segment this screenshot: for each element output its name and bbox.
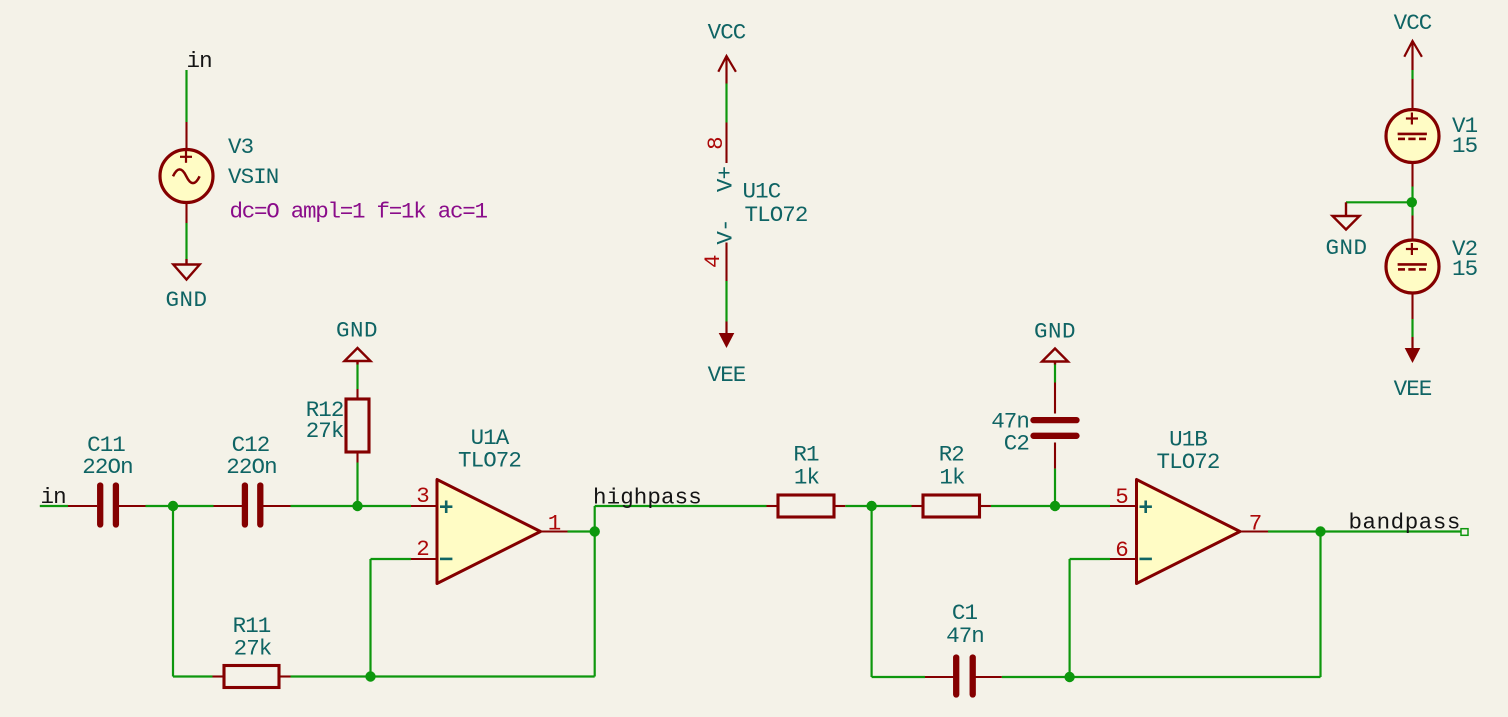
pin right of C1: [976, 676, 1002, 678]
wire in label to V3: [185, 70, 187, 122]
svg-text:bandpass: bandpass: [1349, 510, 1461, 536]
svg-text:VCC: VCC: [1394, 10, 1432, 36]
pin right of R1: [834, 505, 845, 507]
wire up to bandpass node F: [1319, 532, 1321, 678]
wire GND to C2 top: [1054, 365, 1056, 383]
power symbol VEE right: [1405, 337, 1421, 363]
wire U1C pin 4 to VEE: [725, 281, 727, 322]
svg-text:C2: C2: [1004, 431, 1029, 457]
pin 6 of U1B: [1110, 558, 1137, 560]
junction node H: [365, 671, 375, 681]
svg-text:V+: V+: [713, 167, 739, 193]
pin 5 of U1B: [1110, 505, 1137, 507]
svg-text:22On: 22On: [82, 454, 132, 480]
pin left of R2: [912, 505, 924, 507]
pin 1 of U1A: [541, 530, 568, 532]
capacitor C2: [1034, 420, 1077, 436]
svg-text:8: 8: [703, 137, 729, 150]
wire V1 to V2 through node J: [1411, 187, 1413, 216]
voltage source V1: [1386, 110, 1439, 163]
svg-text:TLO72: TLO72: [458, 448, 521, 474]
wire VCC to U1C pin 8: [725, 84, 727, 123]
svg-text:1k: 1k: [794, 465, 820, 491]
svg-text:VEE: VEE: [708, 362, 746, 388]
svg-text:3: 3: [416, 483, 429, 509]
junction node A: [168, 501, 178, 511]
svg-text:47n: 47n: [946, 623, 984, 649]
wire U1A output to node C: [568, 530, 595, 532]
svg-text:VEE: VEE: [1394, 376, 1432, 402]
junction node E: [1064, 672, 1074, 682]
svg-text:27k: 27k: [234, 636, 272, 662]
pin bottom of C2: [1054, 443, 1056, 469]
wire VCC to V1: [1411, 70, 1413, 79]
svg-text:TLO72: TLO72: [1156, 449, 1219, 475]
pin left of C11: [68, 505, 97, 507]
svg-text:U1C: U1C: [743, 179, 781, 205]
wire U1A pin 2: [371, 558, 412, 560]
capacitor C12: [245, 486, 260, 525]
svg-text:7: 7: [1249, 511, 1262, 537]
svg-text:22On: 22On: [226, 454, 276, 480]
svg-text:1: 1: [548, 511, 561, 537]
svg-text:TLO72: TLO72: [745, 202, 808, 228]
pin bottom of V1: [1411, 164, 1413, 187]
svg-text:1k: 1k: [939, 465, 965, 491]
pin right of R2: [980, 505, 991, 507]
wire node A down: [172, 506, 174, 677]
svg-text:dc=O ampl=1 f=1k ac=1: dc=O ampl=1 f=1k ac=1: [230, 199, 488, 225]
wire R1 to R2 through node D: [845, 505, 911, 507]
pin bottom of R12: [356, 452, 358, 463]
svg-text:15: 15: [1452, 133, 1478, 159]
pin top of V2: [1411, 216, 1413, 241]
pin 4 of U1C: [725, 243, 727, 282]
svg-text:GND: GND: [336, 318, 378, 344]
wire R2 to U1B pin 5 through node G: [991, 505, 1110, 507]
pin 3 of U1A: [411, 505, 437, 507]
wire up to highpass corner: [594, 506, 596, 677]
pin left of C1: [925, 676, 954, 678]
svg-text:6: 6: [1115, 537, 1128, 563]
resistor R1: [778, 495, 834, 517]
voltage source V2: [1386, 240, 1439, 293]
wire node D corner to C1: [872, 676, 925, 678]
wire C1 to corner below U1B output: [1002, 676, 1321, 678]
junction node C: [590, 526, 600, 536]
voltage source V3: [160, 150, 213, 203]
svg-text:V-: V-: [713, 219, 739, 244]
svg-text:GND: GND: [1325, 235, 1367, 261]
ground below V3: [173, 259, 199, 280]
ground above C2: [1042, 349, 1068, 365]
svg-text:2: 2: [416, 536, 429, 562]
wire C11 to C12 through node A: [146, 505, 214, 507]
svg-text:V3: V3: [228, 134, 254, 160]
power symbol VCC middle: [718, 56, 736, 84]
pin 2 of U1A: [411, 558, 437, 560]
svg-text:27k: 27k: [306, 418, 344, 444]
ground above R12: [345, 348, 371, 365]
pin top of V1: [1411, 79, 1413, 109]
wire pin 6 down to node E: [1068, 559, 1070, 677]
resistor R11: [224, 666, 279, 688]
svg-text:4: 4: [700, 255, 726, 268]
svg-text:5: 5: [1115, 484, 1128, 510]
wire U1B output to node F: [1268, 530, 1321, 532]
pin top of R12: [356, 389, 358, 399]
svg-text:highpass: highpass: [593, 485, 702, 511]
wire R11 to corner below U1A output: [291, 675, 595, 677]
wire highpass net to R1: [595, 505, 767, 507]
pin 8 of U1C: [725, 123, 727, 164]
op-amp U1B: [1137, 480, 1241, 584]
capacitor C1: [956, 658, 973, 695]
wire node D down: [870, 506, 872, 677]
junction node F: [1315, 526, 1325, 536]
svg-text:in: in: [41, 484, 66, 510]
pin top of C2: [1054, 383, 1056, 414]
pin right of R11: [279, 675, 291, 677]
pin left of C12: [214, 505, 243, 507]
pin top of V3: [185, 122, 187, 150]
pin left of R11: [213, 675, 225, 677]
wire R12 bottom to node B: [356, 463, 358, 507]
op-amp U1A: [437, 480, 541, 584]
wire node G up to C2: [1054, 469, 1056, 506]
resistor R12: [346, 399, 369, 452]
svg-text:GND: GND: [1034, 319, 1076, 345]
svg-text:15: 15: [1452, 256, 1478, 282]
junction node B: [352, 501, 362, 511]
wire bandpass net: [1321, 530, 1461, 532]
ground right of V1 V2 node: [1333, 202, 1360, 229]
svg-text:in: in: [187, 48, 212, 74]
resistor R2: [923, 495, 980, 517]
pin right of C11: [119, 505, 146, 507]
pin 7 of U1B: [1240, 530, 1268, 532]
wire C12 to U1A pin 3 through node B: [291, 505, 412, 507]
pin right of C12: [263, 505, 291, 507]
capacitor C11: [100, 486, 116, 525]
power symbol VEE middle: [719, 322, 735, 349]
wire node A to R11: [173, 675, 213, 677]
wire end square bandpass: [1461, 529, 1468, 536]
junction node G: [1050, 501, 1060, 511]
svg-text:VSIN: VSIN: [228, 164, 278, 190]
wire V3 to GND: [185, 223, 187, 259]
power symbol VCC right: [1404, 41, 1422, 70]
wire node J to GND: [1346, 201, 1412, 203]
junction node D: [866, 501, 876, 511]
wire pin 2 down to node H: [369, 559, 371, 677]
pin left of R1: [767, 505, 779, 507]
wire in to C11: [40, 505, 68, 507]
wire U1B pin 6: [1070, 558, 1110, 560]
wire GND to R12 top: [356, 365, 358, 390]
svg-text:VCC: VCC: [708, 20, 746, 46]
pin bottom of V2: [1411, 293, 1413, 319]
wire V2 to VEE: [1411, 319, 1413, 337]
pin bottom of V3: [185, 203, 187, 224]
svg-text:GND: GND: [165, 287, 207, 313]
junction node J: [1407, 197, 1417, 207]
